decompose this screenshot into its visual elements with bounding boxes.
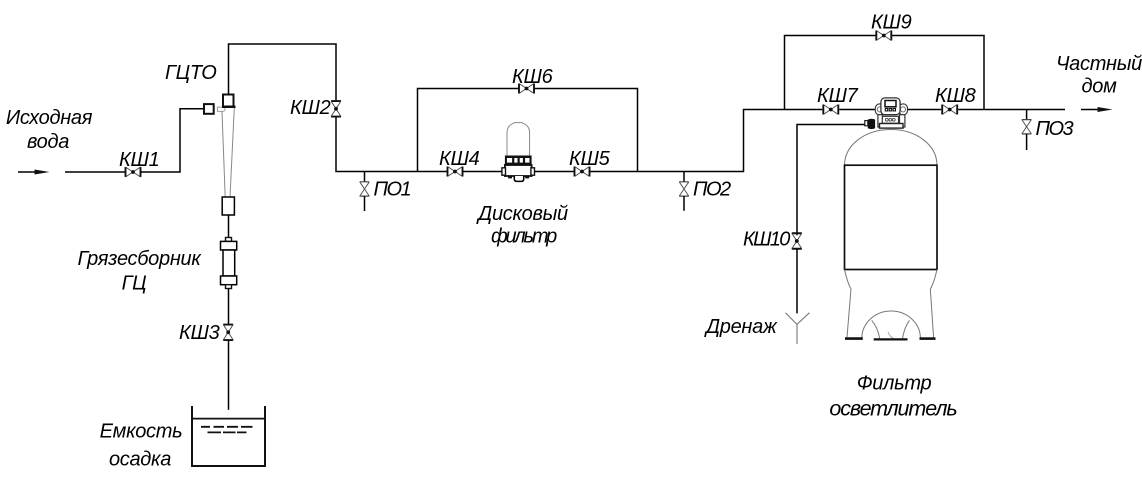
svg-text:осветлитель: осветлитель [829,397,957,421]
svg-text:КШ9: КШ9 [871,12,912,34]
wire: KSh4 to disc filter [463,171,503,173]
wire: KSh1 to riser up to cyclone inlet [141,109,205,172]
svg-text:КШ3: КШ3 [179,322,220,344]
wire: KSh8 to outlet [958,109,1065,111]
drain funnel symbol [785,313,809,344]
wire: clarifier bypass (left riser, top, right riser) [785,36,985,110]
clarifier tank shell [845,165,938,269]
valve КШ2 [331,101,341,117]
clarifier tank dome top [845,130,938,166]
arrow: source water inlet [18,170,50,175]
tap ПО1 [360,172,370,212]
wire: control valve to KSh8 [908,109,942,111]
valve КШ6 [519,84,534,94]
hydrocyclone ГЦТО top box [222,95,236,107]
label Емкость осадка [100,421,183,471]
valve КШ7 [823,105,838,115]
wire: disc filter bypass (left riser, top, right riser) [418,89,638,172]
valve КШ10 [792,233,802,249]
svg-text:Грязесборник: Грязесборник [77,248,202,270]
svg-text:КШ4: КШ4 [439,148,480,170]
tap ПО3 [1022,110,1032,151]
wire: KSh10 down to drain [796,249,798,314]
clarifier tank bottom dome and skirt [845,270,938,338]
wire: KSh7 to control valve [839,109,876,111]
svg-text:ПО2: ПО2 [693,179,731,201]
wire: KSh2 down and main run to PO1 [336,117,365,172]
wire: cyclone bottom to dirt collector [228,215,230,238]
svg-text:Частный: Частный [1056,53,1142,75]
svg-text:ГЦ: ГЦ [122,273,147,295]
svg-text:Фильтр: Фильтр [857,373,932,395]
clarifier base arch [862,311,921,338]
wire: dirt collector to KSh3 [228,289,230,325]
svg-text:КШ10: КШ10 [743,229,790,251]
tap ПО2 [679,172,689,211]
disc filter symbol [502,123,535,182]
label Дисковый фильтр [476,203,568,248]
wire: KSh5 to PO2 to right riser [590,110,823,172]
svg-text:КШ2: КШ2 [290,97,331,119]
sediment tank Емкость осадка [192,406,265,466]
hydrocyclone bottom box [222,197,234,215]
svg-text:КШ8: КШ8 [935,85,976,107]
svg-text:Емкость: Емкость [100,421,183,443]
svg-text:Дренаж: Дренаж [704,316,778,338]
label Фильтр осветлитель [829,373,957,421]
svg-text:Дисковый: Дисковый [476,203,568,225]
wire: KSh3 down into sediment tank [228,340,230,410]
svg-text:Исходная: Исходная [6,107,93,129]
svg-text:вода: вода [27,131,69,153]
label Грязесборник ГЦ [77,248,202,295]
cyclone inlet box [204,104,214,114]
valve КШ8 [942,105,957,115]
label Исходная вода [6,107,93,153]
svg-text:осадка: осадка [109,449,171,471]
svg-text:ПО1: ПО1 [374,179,411,201]
valve КШ3 [223,325,233,341]
valve КШ5 [575,167,590,177]
wire: main run PO1 to KSh4 [365,171,448,173]
dirt collector ГЦ (cap, flanges, body) [221,238,237,289]
svg-text:КШ7: КШ7 [817,85,859,107]
label Частный дом [1056,53,1142,98]
svg-text:ГЦТО: ГЦТО [165,62,217,84]
cyclone inlet nozzle [217,107,225,111]
clarifier feet flanges [845,337,936,340]
svg-text:фильтр: фильтр [491,226,557,248]
hydrocyclone cone [222,108,234,197]
wire: drain line from control valve to KSh10 [797,125,865,236]
svg-text:дом: дом [1082,76,1118,98]
wire: disc filter to KSh5 [535,171,575,173]
svg-text:ПО3: ПО3 [1036,118,1074,140]
wire: cyclone top to KSh2 [229,44,337,101]
control valve head on clarifier [865,98,908,129]
valve КШ1 [126,167,141,177]
valve КШ9 [876,31,891,41]
valve КШ4 [448,167,463,177]
wire: inlet pipe to valve KSh1 [65,171,126,173]
arrow: outlet to private house [1081,107,1113,112]
